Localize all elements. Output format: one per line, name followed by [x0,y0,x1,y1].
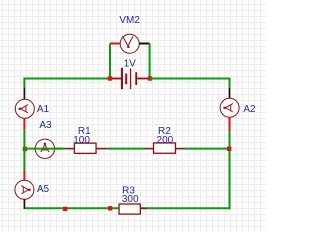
junction square mid-left [23,147,27,151]
ammeter A2 [220,98,239,117]
resistor R3 [119,204,147,214]
wire mid green between R1 R2 [107,148,145,150]
wire red below A2 [229,117,231,131]
wire mid horizontal green left [24,148,63,150]
ammeter A3 [35,139,54,158]
resistor R1 [64,143,108,153]
voltmeter VM2 [120,34,139,53]
wire green right mid [229,131,231,149]
ammeter A5 [15,180,34,199]
wire right vertical green upper [229,78,231,88]
svg-text:1V: 1V [124,59,137,70]
voltmeter black lead [139,43,150,45]
svg-text:VM2: VM2 [119,15,140,26]
wire black above A1 [23,87,25,99]
wire bottom horizontal green [25,207,230,209]
svg-text:300: 300 [122,194,139,205]
wire green through A3 [35,148,64,150]
battery terminal square left [108,76,112,80]
junction square left of R3 [108,206,112,210]
ammeter A1 [15,99,34,118]
junction square bottom-left [63,207,67,211]
wire red below A1 [23,118,25,129]
wire black above A2 [229,88,231,99]
svg-text:A3: A3 [39,120,52,131]
wire left vertical green upper [23,78,25,88]
wire black below A5 [23,199,25,209]
svg-text:200: 200 [157,135,174,146]
wire top-left horizontal [23,78,110,80]
wire right vertical green lower [229,149,231,210]
resistor R2 [145,143,185,153]
wire top-right horizontal green [150,78,231,80]
svg-text:A5: A5 [37,184,50,195]
battery green vertical right [149,44,151,78]
battery green vertical left [109,44,111,78]
voltmeter red lead [110,43,120,45]
svg-text:A2: A2 [243,104,256,115]
svg-text:A1: A1 [37,104,50,115]
wire red above A5 [23,171,25,181]
wire mid green right [185,148,230,150]
glyph A3 [41,143,49,152]
battery terminal square right [148,76,152,80]
junction square mid-right [227,147,231,151]
wire green left mid [23,130,25,171]
battery V1 [112,68,149,89]
svg-text:100: 100 [73,135,90,146]
